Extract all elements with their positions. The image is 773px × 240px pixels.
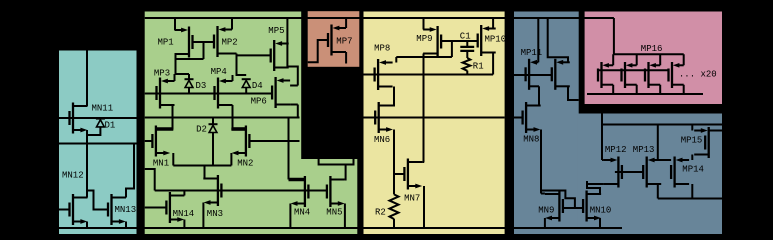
wire MN5 source down — [344, 204, 346, 229]
wire MP10 source riser — [492, 18, 494, 29]
wire MP8 drain down — [393, 87, 394, 106]
wire MP12 drain corner — [587, 181, 604, 184]
wire MP2 drain net — [237, 54, 247, 76]
wire MP13 gate-MP14 link — [658, 159, 671, 161]
wire MN14 drain riser — [183, 191, 185, 196]
panel: second stage (yellow) — [364, 12, 505, 235]
transistor MP12 — [604, 157, 622, 188]
wire MN12 drain corner — [86, 197, 89, 199]
wire MP11L drain down — [538, 86, 540, 106]
diode D4 — [242, 79, 251, 87]
wire output line — [658, 198, 722, 200]
wire MN8 source chain — [540, 130, 542, 194]
wire MN13 gate elbow — [87, 191, 108, 210]
transistor MP16a — [598, 62, 613, 88]
wire MP8-MP9 link — [396, 56, 452, 58]
wire mirror feed — [613, 18, 615, 54]
panel: green extension — [300, 159, 357, 234]
wire D2 top — [212, 118, 214, 125]
panel: input stage (green) — [145, 12, 302, 235]
wire stage gate stub — [145, 169, 155, 191]
wire MP2 drain lead ext — [232, 53, 237, 55]
transistor MP1 — [175, 27, 193, 58]
wire MP7 gate path — [308, 40, 328, 62]
wire teal top vertical — [86, 51, 88, 107]
wire MN9 source down — [544, 218, 546, 228]
wire cascode gate bus — [145, 93, 272, 95]
wire MP2 source riser — [231, 18, 233, 30]
transistor MP16d — [669, 62, 684, 88]
svg-text:MP9: MP9 — [416, 34, 432, 44]
wire D1 anode elbow — [87, 127, 100, 135]
wire MN4 drain riser — [288, 118, 290, 180]
transistor MP7 — [328, 25, 346, 56]
transistor MN9 — [545, 191, 563, 222]
wire MN6 source down — [393, 130, 395, 195]
svg-text:MN7: MN7 — [404, 194, 420, 204]
wire C1 top — [466, 41, 468, 47]
svg-text:MP6: MP6 — [251, 97, 267, 107]
wire MP6 source corner — [290, 85, 298, 87]
diode D2 — [209, 124, 218, 132]
panel: MP7 block (salmon) — [308, 11, 360, 67]
svg-text:MP3: MP3 — [154, 69, 170, 79]
wire MP15 source stub — [709, 130, 722, 132]
svg-text:MN6: MN6 — [374, 135, 390, 145]
wire MN7 drain corner — [422, 161, 424, 163]
wire MN1 gate stub — [145, 140, 153, 142]
svg-text:D4: D4 — [252, 81, 263, 91]
transistor MN5 — [327, 176, 345, 207]
wire MP3 drain down — [172, 105, 174, 118]
svg-text:MN12: MN12 — [62, 171, 84, 181]
wire MN3 drain corner — [203, 178, 204, 180]
wire MN5 top elbow — [319, 159, 354, 165]
wire MN7 source down — [423, 186, 425, 228]
wire MP4 drain down — [232, 105, 234, 129]
transistor MP3 — [157, 78, 175, 109]
wire bias net — [59, 143, 137, 145]
wire MN10 source down — [599, 218, 601, 228]
svg-text:R2: R2 — [375, 208, 386, 218]
wire MP13 source riser — [657, 125, 659, 161]
wire MP11 gate bus — [514, 74, 552, 76]
wire stage supply riser — [601, 114, 603, 125]
wire MN14 gate stub — [145, 207, 167, 209]
wire MN13 drain elbow — [126, 144, 134, 198]
transistor MP16c — [645, 62, 660, 88]
wire MP14 source riser — [691, 155, 693, 161]
svg-text:... x20: ... x20 — [679, 70, 717, 80]
svg-text:MN14: MN14 — [173, 209, 195, 219]
svg-text:MP15: MP15 — [681, 136, 703, 146]
wire R2 bottom — [393, 219, 395, 228]
wire D2 anode down — [212, 133, 214, 166]
wire MN10 drain riser — [587, 181, 600, 194]
transistor MN10 — [583, 191, 601, 222]
wire unit3 risers — [659, 54, 661, 94]
resistor R2 — [390, 194, 399, 219]
wire MN4 source down — [289, 204, 291, 229]
svg-text:C1: C1 — [460, 32, 471, 42]
svg-text:D3: D3 — [196, 81, 207, 91]
svg-text:MN11: MN11 — [92, 104, 114, 114]
wire MN9 drain corner — [541, 193, 545, 195]
panel: output stage left (blue) — [514, 12, 579, 235]
resistor R1 — [463, 58, 471, 71]
wire MN2 source down — [230, 153, 232, 166]
transistor MN4 — [290, 176, 308, 207]
wire D3 anode — [188, 88, 190, 94]
wire MN13 source down — [125, 222, 127, 229]
wire MN8 gate stub — [514, 117, 523, 119]
wire ground rail — [59, 227, 622, 229]
wire tail tap down — [204, 166, 206, 179]
svg-text:MP7: MP7 — [336, 37, 352, 47]
transistor MN14 — [166, 192, 184, 223]
wire MN11 drain lead corner — [73, 105, 87, 107]
wire MP1 drain to tap — [176, 58, 204, 60]
wire MP9 source riser — [423, 18, 425, 30]
wire mirror gate bus — [598, 69, 669, 71]
wire MP1 source riser — [174, 18, 176, 30]
panel: output stage right (blue) — [578, 114, 722, 235]
wire MN11 source down — [86, 130, 88, 144]
wire MN14 source down — [183, 220, 185, 229]
transistor MP2 — [214, 26, 232, 57]
wire first stage output net — [145, 117, 300, 119]
wire MP1-MP2 gate bus — [193, 41, 215, 43]
svg-text:D1: D1 — [105, 121, 116, 131]
svg-text:MP14: MP14 — [682, 165, 704, 175]
wire MN12 gate — [59, 209, 70, 211]
transistor MN11 — [70, 103, 88, 134]
svg-text:MP12: MP12 — [605, 145, 627, 155]
wire MN2 drain riser — [231, 127, 246, 131]
wire MP5 gate tap — [237, 54, 271, 56]
transistor MP9 — [423, 26, 441, 57]
wire MP12 source riser — [601, 125, 603, 161]
wire bottom gate bus — [155, 190, 327, 192]
transistor MN6 — [375, 102, 393, 133]
transistor MP6 — [272, 77, 290, 108]
wire D4 anode — [245, 88, 247, 94]
transistor MN7 — [404, 159, 422, 190]
wire MP5 source riser — [286, 18, 288, 67]
svg-text:MN5: MN5 — [326, 208, 342, 218]
wire MP8 source riser — [395, 57, 397, 63]
svg-text:MN8: MN8 — [523, 135, 539, 145]
transistor MP15 — [694, 127, 709, 158]
svg-text:MN4: MN4 — [294, 208, 310, 218]
svg-text:R1: R1 — [473, 62, 484, 72]
svg-text:MP4: MP4 — [211, 67, 227, 77]
wire MP13 drain to output — [657, 184, 659, 199]
transistor MP4 — [215, 78, 233, 109]
wire MN11 gate net — [59, 117, 137, 119]
wire MP7 drain down — [345, 52, 347, 64]
svg-text:MP11: MP11 — [521, 48, 543, 58]
capacitor C1 — [460, 47, 474, 51]
diode D1 — [96, 119, 105, 127]
wire MP3 source riser — [174, 74, 176, 81]
wire MN4 drain lead — [289, 178, 305, 182]
transistor MN12 — [70, 194, 88, 225]
wire MP7 source riser — [345, 18, 347, 28]
wire MP5 drain jog — [287, 67, 297, 86]
transistor MN8 — [523, 102, 541, 133]
wire MP11R drain exit — [568, 86, 579, 100]
diode D3 — [185, 79, 194, 87]
wire MP9 gate bus — [441, 40, 478, 42]
wire unit4 risers — [683, 54, 685, 94]
wire MP6 drain down — [290, 105, 298, 118]
transistor MP13 — [643, 157, 661, 188]
svg-text:MP2: MP2 — [222, 38, 238, 48]
svg-text:D2: D2 — [196, 125, 207, 135]
transistor MP14 — [671, 157, 689, 188]
wire MN1 drain corner — [156, 127, 173, 131]
wire MP14 drain down — [691, 184, 693, 199]
svg-text:MP8: MP8 — [374, 44, 390, 54]
wire MP10 drain down — [492, 53, 494, 75]
wire MN9-MN10 gate bus — [563, 207, 582, 209]
wire MP12-MP13 gate bus — [615, 171, 643, 173]
svg-text:MN1: MN1 — [153, 159, 169, 169]
wire MP11R source dogleg — [548, 18, 568, 62]
panel: bias block (teal) — [59, 51, 137, 235]
wire MN1 source down — [172, 153, 174, 166]
wire MP9 drain long vertical — [423, 54, 425, 163]
svg-text:MN13: MN13 — [115, 205, 137, 215]
wire tail bus — [173, 165, 231, 167]
wire C1 bottom — [466, 51, 468, 58]
wire stage supply bus — [602, 124, 722, 126]
wire unit1 risers — [612, 54, 614, 94]
wire unit2 risers — [636, 54, 638, 94]
svg-text:MP5: MP5 — [268, 26, 284, 36]
wire gate tap down — [451, 41, 453, 57]
transistor MN2 — [231, 126, 249, 157]
transistor MN3 — [203, 175, 221, 206]
wire mirror drain bus — [587, 93, 703, 95]
wire mirror source bus — [613, 53, 684, 55]
wire MP12 source lead ext — [602, 159, 604, 161]
wire left branch node — [172, 118, 175, 130]
wire gate bus tap — [203, 42, 205, 59]
wire compensation net — [364, 74, 494, 76]
wire MP15 source riser — [691, 125, 693, 131]
wire D3 top — [188, 74, 190, 79]
wire R1 bottom — [466, 71, 468, 75]
panel: mirror array (pink) — [585, 12, 722, 105]
svg-text:MN10: MN10 — [590, 206, 612, 216]
wire MN6 gate net — [364, 117, 505, 119]
transistor MN1 — [152, 126, 170, 157]
transistor MP5 — [271, 40, 289, 71]
transistor MP11b — [552, 59, 570, 90]
wire teal mid vertical — [86, 144, 88, 198]
svg-text:MN3: MN3 — [207, 209, 223, 219]
wire MP11L source riser — [537, 18, 539, 62]
wire VDD rail — [145, 17, 614, 19]
transistor MN13 — [108, 194, 126, 225]
transistor MP11a — [526, 59, 539, 90]
wire MN2 gate net — [249, 140, 299, 142]
svg-text:MP13: MP13 — [633, 145, 655, 155]
wire MP1 drain net — [176, 54, 190, 74]
wire MN12 source down — [86, 222, 88, 229]
wire MN7 gate tap — [394, 173, 404, 175]
svg-text:MP1: MP1 — [158, 38, 174, 48]
transistor MP16b — [622, 62, 637, 88]
wire MN8 drain corner — [539, 105, 541, 107]
transistor MP10 — [478, 25, 496, 56]
wire MP4 source riser — [232, 75, 234, 81]
svg-text:MP16: MP16 — [641, 44, 663, 54]
wire gate staircase — [541, 191, 575, 209]
svg-text:MP10: MP10 — [485, 35, 507, 45]
wire MN3 source down — [202, 203, 204, 229]
transistor MP8 — [375, 59, 393, 90]
wire MN5 drain riser — [344, 165, 347, 180]
svg-text:MN9: MN9 — [538, 206, 554, 216]
svg-text:MN2: MN2 — [237, 159, 253, 169]
